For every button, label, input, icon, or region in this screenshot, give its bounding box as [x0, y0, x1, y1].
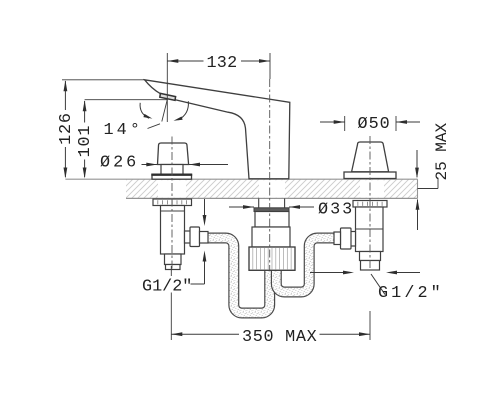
svg-text:132: 132: [206, 54, 237, 73]
svg-text:101: 101: [76, 125, 95, 158]
svg-text:G1/2": G1/2": [142, 278, 192, 297]
svg-text:350 MAX: 350 MAX: [242, 328, 317, 347]
svg-text:G1/2": G1/2": [378, 284, 444, 303]
svg-text:Ø33: Ø33: [318, 201, 354, 220]
svg-text:Ø26: Ø26: [100, 154, 139, 173]
svg-text:126: 126: [57, 112, 76, 145]
svg-text:25 MAX: 25 MAX: [433, 122, 451, 180]
svg-text:Ø50: Ø50: [358, 115, 391, 134]
svg-text:14°: 14°: [104, 121, 144, 140]
